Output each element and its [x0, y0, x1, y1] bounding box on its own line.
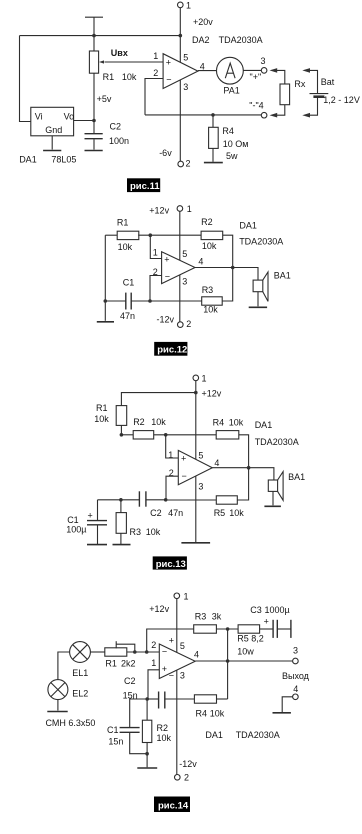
svg-text:100n: 100n: [109, 136, 129, 146]
svg-text:1: 1: [151, 658, 156, 668]
lamp EL2: [48, 680, 68, 700]
svg-text:1: 1: [153, 248, 158, 258]
svg-text:2k2: 2k2: [121, 659, 136, 669]
potentiometer R1: [89, 51, 98, 73]
svg-text:TDA2030A: TDA2030A: [239, 237, 283, 247]
wire R2 right to right rail: [223, 235, 233, 267]
wire terminal 4 to ground: [282, 697, 293, 712]
wire R5 right to C3: [260, 628, 273, 630]
svg-text:10 Ом: 10 Ом: [223, 139, 249, 149]
svg-text:10k: 10k: [118, 242, 133, 252]
svg-text:DA1: DA1: [255, 420, 273, 430]
terminal 3 "+": [261, 68, 267, 74]
svg-text:R4: R4: [213, 417, 225, 427]
ground (C2): [85, 150, 103, 152]
svg-text:рис.12: рис.12: [157, 345, 187, 356]
svg-text:2: 2: [169, 468, 174, 478]
wire pin2: [150, 276, 162, 302]
op-amp DA1 triangle: [159, 644, 195, 679]
capacitor C1 polarized: [87, 520, 107, 522]
terminal 1: [193, 375, 199, 381]
ground (speaker): [249, 306, 267, 308]
svg-text:2: 2: [151, 640, 156, 650]
svg-text:10k: 10k: [203, 305, 218, 315]
junction output / terminal3: [226, 659, 230, 663]
speaker BA1: [253, 280, 263, 292]
wire pin1 drop: [150, 235, 161, 258]
svg-text:−: −: [169, 671, 174, 681]
junction pin2 / R5 / C2: [164, 498, 168, 502]
wire to R2: [121, 434, 133, 436]
svg-text:1,2 - 12V: 1,2 - 12V: [323, 95, 360, 105]
wire output to terminal 3: [195, 660, 293, 662]
svg-text:C2: C2: [150, 508, 162, 518]
op-amp DA1 triangle: [178, 450, 212, 484]
svg-text:Bat: Bat: [321, 77, 335, 87]
resistor R3: [202, 297, 223, 305]
svg-text:2: 2: [153, 267, 158, 277]
junction wiper: [133, 650, 137, 654]
svg-text:R3: R3: [130, 527, 142, 537]
resistor R2: [133, 431, 154, 439]
svg-text:C2: C2: [124, 676, 136, 686]
resistor R2: [201, 231, 223, 239]
svg-text:Uвх: Uвх: [111, 48, 128, 58]
svg-text:C2: C2: [110, 121, 122, 131]
svg-text:рис.14: рис.14: [158, 800, 189, 811]
svg-text:"-"4: "-"4: [249, 100, 263, 110]
resistor R4: [212, 115, 214, 127]
caption рис.11: [127, 178, 160, 192]
svg-text:5: 5: [180, 641, 185, 651]
wire R4 left to C2: [165, 698, 194, 700]
node end bar: [290, 620, 292, 638]
resistor R3: [194, 625, 217, 633]
svg-text:−: −: [165, 272, 170, 282]
junction R3 top: [119, 498, 123, 502]
svg-text:+: +: [162, 664, 167, 674]
svg-text:DA1: DA1: [239, 221, 257, 231]
svg-text:DA2: DA2: [192, 35, 210, 45]
terminal 3: [293, 658, 299, 664]
svg-text:R2: R2: [201, 217, 213, 227]
wire supply vertical: [179, 211, 181, 321]
svg-text:10k: 10k: [94, 414, 109, 424]
trimmer R1: [105, 648, 127, 656]
svg-text:2: 2: [186, 319, 191, 329]
svg-text:15n: 15n: [108, 737, 123, 747]
svg-text:2: 2: [184, 772, 189, 782]
wire Bat top: [310, 70, 318, 93]
svg-text:2: 2: [153, 68, 158, 78]
svg-text:СМН 6.3x50: СМН 6.3x50: [46, 718, 96, 728]
capacitor C2: [93, 121, 95, 134]
capacitor C2: [138, 491, 140, 506]
junction supply / top rail: [194, 391, 198, 395]
wire EL1 right to R1: [90, 651, 104, 653]
svg-text:+: +: [181, 454, 186, 464]
wiper arrow of R1: [99, 60, 104, 63]
speaker BA1: [268, 480, 277, 491]
wire speaker bottom: [272, 491, 274, 505]
wire R3 rail: [147, 629, 194, 652]
wire R4 branch: [217, 698, 228, 700]
svg-text:R3: R3: [195, 611, 207, 621]
wire junction to C1: [130, 699, 148, 727]
wire supply vertical +20v to -6v: [179, 8, 181, 162]
wire R4 right to right rail: [239, 435, 249, 468]
svg-text:1: 1: [184, 591, 189, 601]
wire top rail input: [105, 234, 117, 236]
wire Vo to junction: [74, 120, 94, 122]
wire left rail: [104, 235, 106, 321]
junction output: [231, 266, 235, 270]
junction supply / top rail: [179, 34, 183, 38]
svg-text:C3: C3: [250, 605, 262, 615]
wire feedback rail down: [227, 629, 229, 699]
wire output pin4 to ammeter: [198, 70, 217, 72]
wire EL1 to EL2: [58, 652, 70, 680]
svg-text:Vo: Vo: [64, 111, 75, 121]
svg-text:R4: R4: [196, 708, 208, 718]
svg-text:5: 5: [183, 52, 188, 62]
svg-text:2: 2: [186, 159, 191, 169]
junction output / right rail: [247, 466, 251, 470]
svg-text:3: 3: [180, 671, 185, 681]
svg-text:3: 3: [261, 56, 266, 66]
wire pin1: [148, 670, 159, 699]
svg-text:-6v: -6v: [159, 148, 172, 158]
svg-text:10k: 10k: [229, 417, 244, 427]
ground (left rail): [97, 321, 114, 323]
wire Gnd pin: [51, 136, 53, 150]
resistor R4: [216, 431, 239, 439]
svg-text:DA1: DA1: [19, 154, 37, 164]
junction pin1 / C1 / R2 / C2: [145, 697, 149, 701]
ammeter PA1: [217, 57, 244, 84]
svg-text:100µ: 100µ: [66, 525, 86, 535]
wire right rail down to R5: [237, 468, 248, 500]
wire top rail: [20, 35, 181, 37]
svg-text:1: 1: [187, 204, 192, 214]
resistor R5: [238, 625, 260, 633]
svg-text:рис.13: рис.13: [156, 559, 186, 570]
wire R2 right to R4: [154, 434, 217, 436]
svg-text:EL1: EL1: [72, 668, 88, 678]
svg-text:BA1: BA1: [288, 472, 305, 482]
wire R5 left to pin2 junction: [166, 499, 217, 501]
wire Rx top: [277, 70, 285, 84]
wire top rail to R1: [121, 393, 195, 406]
svg-text:4: 4: [198, 257, 203, 267]
svg-text:EL2: EL2: [72, 689, 88, 699]
svg-text:-12v: -12v: [157, 315, 175, 325]
svg-text:3: 3: [293, 646, 298, 656]
wire C2 left to junction: [147, 698, 158, 700]
resistor R4: [194, 695, 216, 703]
wire R1 bottom: [120, 425, 122, 434]
ground (speaker): [264, 505, 281, 507]
arrow plug bottom Rx: [270, 113, 278, 118]
wire Uvx input to pin 1: [105, 61, 164, 63]
wire supply vertical: [195, 381, 197, 543]
svg-text:4: 4: [194, 650, 199, 660]
wire C1 bottom: [97, 525, 99, 544]
wire C1 bottom: [130, 733, 147, 754]
wire pin2 feedback: [145, 79, 163, 115]
caption рис.12: [154, 342, 187, 356]
battery Bat: [310, 93, 329, 95]
terminal 1: [178, 2, 184, 8]
svg-text:R5 8,2: R5 8,2: [237, 633, 264, 643]
wire pin1 drop: [166, 435, 179, 458]
wire speaker bottom: [257, 292, 259, 307]
svg-text:5w: 5w: [226, 151, 238, 161]
svg-text:−: −: [166, 74, 171, 84]
caption рис.13: [153, 556, 187, 569]
capacitor C2: [158, 692, 160, 709]
arrow plug top Bat: [302, 68, 310, 73]
wire supply vertical: [176, 599, 178, 775]
wire Rx bottom: [277, 105, 285, 116]
svg-text:4: 4: [214, 458, 219, 468]
svg-text:5: 5: [182, 249, 187, 259]
arrow plug top Rx: [270, 68, 278, 73]
svg-text:PA1: PA1: [223, 86, 239, 96]
resistor R1: [116, 406, 127, 426]
svg-text:+: +: [264, 617, 269, 627]
terminal 1: [174, 593, 180, 599]
junction pin1 drop: [149, 233, 153, 237]
terminal 1: [177, 206, 183, 212]
svg-text:TDA2030A: TDA2030A: [255, 437, 299, 447]
svg-text:−: −: [162, 647, 167, 657]
svg-text:3: 3: [198, 481, 203, 491]
svg-text:R5: R5: [214, 508, 226, 518]
wire pin2: [166, 476, 178, 500]
svg-text:R4: R4: [222, 126, 234, 136]
svg-text:C1: C1: [123, 277, 135, 287]
wire EL2 bottom: [57, 700, 59, 711]
node T stub above R1: [93, 17, 95, 51]
lamp EL1: [70, 642, 91, 663]
svg-text:R1: R1: [117, 218, 129, 228]
ground (EL2): [47, 711, 67, 713]
junction R4 top: [211, 113, 215, 117]
svg-text:R1: R1: [105, 659, 117, 669]
wire C3 right: [277, 628, 290, 630]
svg-text:TDA2030A: TDA2030A: [236, 730, 280, 740]
svg-text:3: 3: [183, 82, 188, 92]
capacitor C1: [120, 727, 140, 729]
svg-text:10k: 10k: [202, 241, 217, 251]
svg-text:4: 4: [293, 684, 298, 694]
svg-text:+12v: +12v: [149, 604, 169, 614]
svg-text:47n: 47n: [168, 508, 183, 518]
svg-text:Vi: Vi: [35, 111, 43, 121]
ground (R2): [137, 767, 157, 769]
svg-text:10k: 10k: [157, 733, 172, 743]
resistor R2: [146, 699, 148, 720]
wire left rail to Vi: [20, 36, 31, 122]
regulator DA1 78L05 box: [31, 107, 74, 136]
svg-text:47n: 47n: [120, 311, 135, 321]
wire R3 right to junction: [216, 628, 238, 630]
svg-text:+: +: [166, 57, 171, 67]
svg-text:+12v: +12v: [149, 206, 169, 216]
svg-text:Выход: Выход: [282, 671, 310, 681]
svg-text:10k: 10k: [122, 72, 137, 82]
svg-text:1: 1: [202, 373, 207, 383]
wiper of R1: [115, 641, 117, 648]
svg-text:10w: 10w: [237, 646, 254, 656]
svg-text:-12v: -12v: [179, 759, 197, 769]
svg-text:+: +: [88, 510, 93, 520]
svg-text:10k: 10k: [146, 527, 161, 537]
wire to ground: [146, 754, 148, 768]
resistor R1: [117, 231, 139, 239]
ground (R3): [113, 544, 131, 546]
svg-text:R2: R2: [157, 723, 169, 733]
svg-text:1: 1: [186, 0, 191, 10]
svg-text:DA1: DA1: [205, 730, 223, 740]
wire R1 right to pin 2: [127, 651, 160, 653]
resistor R3: [120, 500, 122, 513]
svg-text:3k: 3k: [212, 611, 222, 621]
ground (supply): [181, 542, 210, 544]
junction pin1 / R4: [164, 433, 168, 437]
svg-text:10k: 10k: [151, 417, 166, 427]
svg-text:рис.11: рис.11: [130, 181, 160, 192]
wire output: [195, 268, 258, 281]
wire C1 right to R3: [131, 300, 202, 302]
ground (terminal 4): [273, 712, 291, 714]
junction R1 top / rail: [92, 34, 96, 38]
wire C1 drop: [97, 500, 99, 520]
svg-text:+5v: +5v: [97, 94, 112, 104]
svg-text:C1: C1: [107, 725, 119, 735]
op-amp DA2 triangle: [163, 54, 198, 89]
wire +5v R1 bottom to junction: [93, 73, 95, 120]
wire bottom rail to "-" terminal: [145, 114, 262, 116]
wire bottom left rail: [98, 499, 140, 501]
svg-text:R3: R3: [202, 285, 214, 295]
arrow plug bottom Bat: [302, 113, 310, 118]
ground (C1): [87, 544, 107, 546]
resistor R5: [216, 496, 237, 504]
capacitor C1: [125, 293, 127, 310]
junction left rail / C1: [104, 299, 108, 303]
svg-text:10k: 10k: [229, 508, 244, 518]
svg-text:−: −: [182, 471, 187, 481]
svg-text:R1: R1: [96, 403, 108, 413]
svg-text:+20v: +20v: [193, 17, 213, 27]
svg-text:1: 1: [168, 450, 173, 460]
svg-text:R2: R2: [133, 417, 145, 427]
terminal 4 "-": [261, 112, 267, 118]
svg-text:TDA2030A: TDA2030A: [219, 35, 263, 45]
resistor Rx: [280, 84, 290, 105]
wire C2 right to junction: [146, 499, 166, 501]
ground (78L05): [43, 150, 61, 152]
junction R2 bottom: [145, 752, 149, 756]
terminal 2: [175, 775, 181, 781]
junction R1 / R2: [120, 433, 124, 437]
svg-text:"+": "+": [250, 72, 262, 82]
terminal 2: [178, 161, 184, 167]
wire ammeter to terminal 3: [243, 69, 261, 71]
wire output: [212, 468, 274, 480]
junction R3 / R5: [226, 627, 230, 631]
op-amp DA1 triangle: [162, 252, 195, 284]
wire R3 right to right rail: [222, 268, 233, 302]
svg-text:Rx: Rx: [294, 79, 305, 89]
svg-text:1000µ: 1000µ: [265, 605, 290, 615]
svg-text:+: +: [164, 255, 169, 265]
svg-text:BA1: BA1: [274, 270, 291, 280]
caption рис.14: [154, 797, 190, 813]
svg-text:5: 5: [198, 450, 203, 460]
junction Vo / C2: [92, 119, 96, 123]
svg-text:1: 1: [153, 51, 158, 61]
svg-text:3: 3: [182, 276, 187, 286]
svg-text:+: +: [169, 636, 174, 646]
ground (R4): [204, 162, 223, 164]
wire bottom rail: [105, 300, 125, 302]
junction pin2 / C1: [148, 299, 152, 303]
wire R1 right to R2: [138, 234, 201, 236]
wire Bat bottom: [310, 98, 318, 115]
svg-text:10k: 10k: [210, 708, 225, 718]
terminal 2: [178, 322, 184, 328]
svg-text:Gnd: Gnd: [45, 125, 62, 135]
svg-text:+12v: +12v: [202, 388, 222, 398]
svg-text:78L05: 78L05: [51, 154, 76, 164]
junction rail: [145, 650, 149, 654]
svg-text:R1: R1: [103, 72, 115, 82]
